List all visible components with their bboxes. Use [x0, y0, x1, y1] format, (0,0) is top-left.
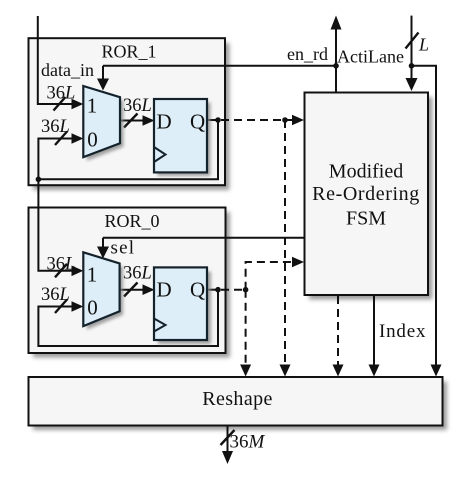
arrowhead dashed into Reshape x285: [280, 365, 291, 377]
svg-text:36M: 36M: [230, 432, 266, 453]
slash on input 0: [55, 132, 67, 146]
wire en_rd horizontal: [103, 65, 337, 67]
svg-text:36L: 36L: [47, 84, 76, 104]
arrowhead mux1 input 0: [72, 133, 84, 144]
arrowhead ActiLane into FSM: [406, 78, 418, 91]
dashed wire ROR_1 Q to FSM: [221, 119, 296, 121]
svg-text:ROR_1: ROR_1: [101, 42, 156, 62]
svg-text:Reshape: Reshape: [202, 388, 273, 410]
clock triangle DFF0: [154, 319, 166, 332]
clock triangle DFF1: [154, 147, 166, 162]
wire output 36M below Reshape: [227, 426, 229, 454]
svg-text:36L: 36L: [41, 285, 70, 305]
ROR_1 box shadow: [33, 43, 230, 190]
junction dot dashed branch: [282, 117, 288, 123]
wire mux1 output to DFF1 D: [120, 120, 146, 122]
svg-text:sel: sel: [111, 238, 136, 259]
wire mux0 output to DFF0 D: [120, 289, 146, 291]
wire en_rd up from FSM: [335, 28, 337, 93]
slash 36L on input 1: [54, 97, 66, 111]
svg-text:en_rd: en_rd: [287, 44, 328, 64]
slash on ROR_0 input 1: [55, 264, 67, 278]
junction dot ROR_0 Q: [215, 287, 221, 293]
arrowhead 36M down: [222, 451, 233, 464]
arrowhead into mux1 top: [97, 79, 109, 91]
svg-text:D: D: [157, 110, 172, 134]
svg-text:36L: 36L: [123, 96, 152, 116]
wire drop into mux1 select: [102, 66, 104, 81]
DFF U3 shadow: [158, 103, 211, 176]
wire Index from FSM to Reshape: [373, 296, 375, 367]
dashed wire ROR_0 Q branch: [221, 289, 246, 291]
svg-text:L: L: [418, 35, 429, 55]
Reshape box shadow: [33, 382, 447, 431]
svg-text:1: 1: [87, 94, 98, 118]
wire chain ROR_1 to ROR_0 input 1: [38, 179, 74, 270]
dashed wire up to FSM: [246, 262, 296, 290]
arrowhead Index into Reshape: [369, 365, 380, 377]
arrowhead dashed into Reshape x245: [240, 365, 251, 377]
mux U4 ROR_0: [83, 252, 119, 326]
svg-text:Re-Ordering: Re-Ordering: [312, 183, 420, 205]
wire drop into mux0 select: [102, 238, 104, 249]
wire ActiLane branch right and down to Reshape: [412, 66, 437, 367]
DFF U5 ROR_0: [154, 267, 207, 340]
arrowhead mux0 input 0: [72, 301, 84, 312]
FSM box U1: [305, 93, 429, 296]
svg-text:FSM: FSM: [346, 208, 386, 230]
junction dot en_rd: [333, 63, 339, 69]
svg-text:1: 1: [87, 263, 98, 287]
DFF U3 ROR_1: [154, 99, 207, 172]
wire data_in vertical into mux 1 input: [38, 16, 74, 104]
dashed vertical ROR_0 Q to Reshape: [245, 290, 247, 367]
mux U2 shadow: [87, 90, 124, 161]
ROR_0 box: [29, 208, 226, 354]
arrowhead mux1 input 1: [72, 99, 84, 110]
dashed wire FSM bottom to Reshape: [337, 296, 339, 367]
svg-text:D: D: [157, 278, 172, 302]
svg-text:0: 0: [87, 295, 98, 319]
arrowhead into DFF1 D: [143, 115, 155, 126]
slash mux0 output: [124, 283, 138, 297]
slash mux1 output: [124, 114, 138, 128]
junction dot ROR_0 dashed branch: [243, 287, 249, 293]
arrowhead mux0 input 1: [72, 266, 84, 277]
arrowhead dashed into FSM top-left: [292, 115, 304, 126]
wire ActiLane vertical: [411, 16, 413, 80]
ROR_1 box: [29, 38, 226, 185]
arrowhead into DFF0 D: [143, 284, 155, 295]
svg-text:36L: 36L: [41, 117, 70, 137]
wire ROR_0 Q feedback: [206, 289, 218, 291]
junction dot ActiLane: [409, 63, 415, 69]
arrowhead dashed into FSM left lower: [292, 257, 304, 268]
svg-text:36L: 36L: [123, 264, 152, 284]
svg-text:data_in: data_in: [41, 60, 94, 80]
junction dot ROR_1 feedback corner: [36, 177, 42, 183]
slash ROR_0 input 0: [55, 300, 67, 314]
svg-text:0: 0: [87, 127, 98, 151]
mux U4 shadow: [87, 256, 123, 330]
arrowhead en_rd up: [331, 16, 342, 30]
svg-text:ROR_0: ROR_0: [104, 211, 159, 231]
junction dot ROR_1 Q: [215, 117, 221, 123]
FSM box shadow: [309, 97, 433, 300]
slash L on ActiLane: [406, 33, 419, 49]
slash 36M: [221, 430, 235, 445]
Reshape box: [29, 377, 443, 426]
svg-text:Q: Q: [190, 278, 205, 302]
dashed vertical ROR_1 Q to Reshape: [284, 120, 286, 367]
wire ROR_1 Q feedback: [207, 119, 218, 121]
mux U2 ROR_1: [83, 86, 120, 157]
DFF U5 shadow: [158, 272, 211, 345]
ROR_0 box shadow: [33, 212, 230, 358]
svg-text:Q: Q: [190, 110, 205, 134]
wire sel from FSM to ROR_0: [103, 237, 305, 239]
arrowhead into mux0 top: [97, 247, 109, 259]
arrowhead into Reshape x436: [431, 365, 442, 377]
svg-text:Index: Index: [379, 321, 426, 342]
arrowhead dashed into Reshape x338: [333, 365, 344, 377]
svg-text:36L: 36L: [47, 255, 76, 275]
svg-text:Modified: Modified: [329, 161, 403, 183]
svg-text:ActiLane: ActiLane: [337, 47, 404, 67]
